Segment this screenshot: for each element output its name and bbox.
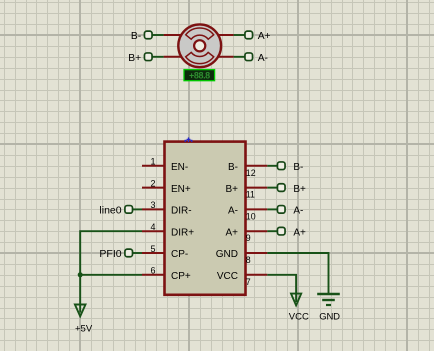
pin 7 stub <box>246 274 268 276</box>
svg-text:3: 3 <box>150 200 155 210</box>
motor pin A+ (right top) <box>218 34 234 36</box>
svg-text:VCC: VCC <box>217 271 238 282</box>
wire motor to terminal A+ <box>234 34 246 36</box>
svg-text:B-: B- <box>293 162 303 173</box>
wire pin 4 to +5V rail <box>80 231 142 312</box>
svg-text:6: 6 <box>150 266 155 276</box>
svg-text:+5V: +5V <box>75 323 93 334</box>
pin 8 stub <box>246 252 268 254</box>
wire terminal PFI0 to pin 5 <box>132 252 142 254</box>
svg-text:GND: GND <box>216 249 238 260</box>
wire pin 10 to terminal A- <box>267 208 277 210</box>
pin 10 stub <box>246 208 268 210</box>
svg-text:B-: B- <box>131 31 141 42</box>
ground symbol <box>317 294 340 305</box>
terminal B- (out) <box>277 162 285 170</box>
wire pin 12 to terminal B- <box>267 165 277 167</box>
svg-text:A-: A- <box>228 206 238 217</box>
svg-text:10: 10 <box>246 211 256 221</box>
svg-text:8: 8 <box>246 255 251 265</box>
wire terminal B- to motor <box>152 34 164 36</box>
terminal B+ (motor) <box>144 53 152 61</box>
svg-text:4: 4 <box>150 222 155 232</box>
svg-text:7: 7 <box>246 277 251 287</box>
svg-text:1: 1 <box>150 157 155 167</box>
svg-text:A+: A+ <box>293 228 306 239</box>
svg-text:B+: B+ <box>225 184 238 195</box>
wire motor to terminal A- <box>234 56 246 58</box>
svg-text:11: 11 <box>246 190 255 200</box>
svg-text:VCC: VCC <box>289 311 309 322</box>
svg-text:line0: line0 <box>99 205 121 217</box>
pin 12 stub <box>246 165 268 167</box>
svg-text:EN-: EN- <box>171 162 188 173</box>
svg-text:DIR-: DIR- <box>171 206 192 217</box>
pin 6 stub <box>142 274 165 276</box>
motor angle display +88.8 <box>184 70 215 81</box>
wire pin 9 to terminal A+ <box>267 230 277 232</box>
terminal B- (motor) <box>144 31 152 39</box>
wire pin 8 to ground <box>267 253 328 294</box>
pin 4 stub <box>142 230 165 232</box>
pin 3 stub <box>142 208 165 210</box>
pin 2 stub <box>142 187 165 189</box>
svg-text:A-: A- <box>293 206 303 217</box>
wire pin 11 to terminal B+ <box>267 187 277 189</box>
wire terminal B+ to motor <box>152 56 164 58</box>
driver IC U1 body <box>165 142 246 295</box>
svg-text:EN+: EN+ <box>171 184 191 195</box>
wire terminal line0 to pin 3 <box>132 208 142 210</box>
pin 5 stub <box>142 252 165 254</box>
wire pin 6 to junction <box>80 274 142 276</box>
svg-text:A+: A+ <box>258 31 271 42</box>
svg-text:B+: B+ <box>128 53 141 64</box>
junction <box>78 272 83 277</box>
motor pin A- (right bottom) <box>218 56 234 58</box>
stepper motor M1 body <box>178 24 221 67</box>
svg-text:CP+: CP+ <box>171 271 191 282</box>
svg-text:A+: A+ <box>225 227 238 238</box>
terminal B+ (out) <box>277 184 285 192</box>
terminal A+ (out) <box>277 227 285 235</box>
svg-text:12: 12 <box>246 168 256 178</box>
svg-text:CP-: CP- <box>171 249 188 260</box>
wire pin 7 to VCC <box>267 275 296 302</box>
motor pin B+ (left bottom) <box>164 56 182 58</box>
terminal A- (motor) <box>245 53 253 61</box>
power terminal +5V (down arrow) <box>75 305 86 317</box>
svg-text:2: 2 <box>150 178 155 188</box>
svg-text:B-: B- <box>228 162 238 173</box>
svg-text:GND: GND <box>319 311 340 322</box>
svg-text:5: 5 <box>150 244 155 254</box>
svg-text:+88.8: +88.8 <box>189 71 210 81</box>
svg-text:9: 9 <box>246 233 251 243</box>
power terminal VCC (down arrow) <box>291 294 301 306</box>
terminal A- (out) <box>277 206 285 214</box>
pin 11 stub <box>246 187 268 189</box>
svg-text:PFI0: PFI0 <box>99 248 121 260</box>
terminal line0 <box>125 206 133 214</box>
svg-text:B+: B+ <box>293 184 306 195</box>
svg-text:A-: A- <box>258 53 268 64</box>
pin 1 stub <box>142 165 165 167</box>
terminal A+ (motor) <box>245 31 253 39</box>
motor pin B- (left top) <box>164 34 182 36</box>
U1 origin marker (blue) <box>185 137 192 142</box>
svg-text:DIR+: DIR+ <box>171 227 194 238</box>
pin 9 stub <box>246 230 268 232</box>
terminal PFI0 <box>125 249 133 257</box>
